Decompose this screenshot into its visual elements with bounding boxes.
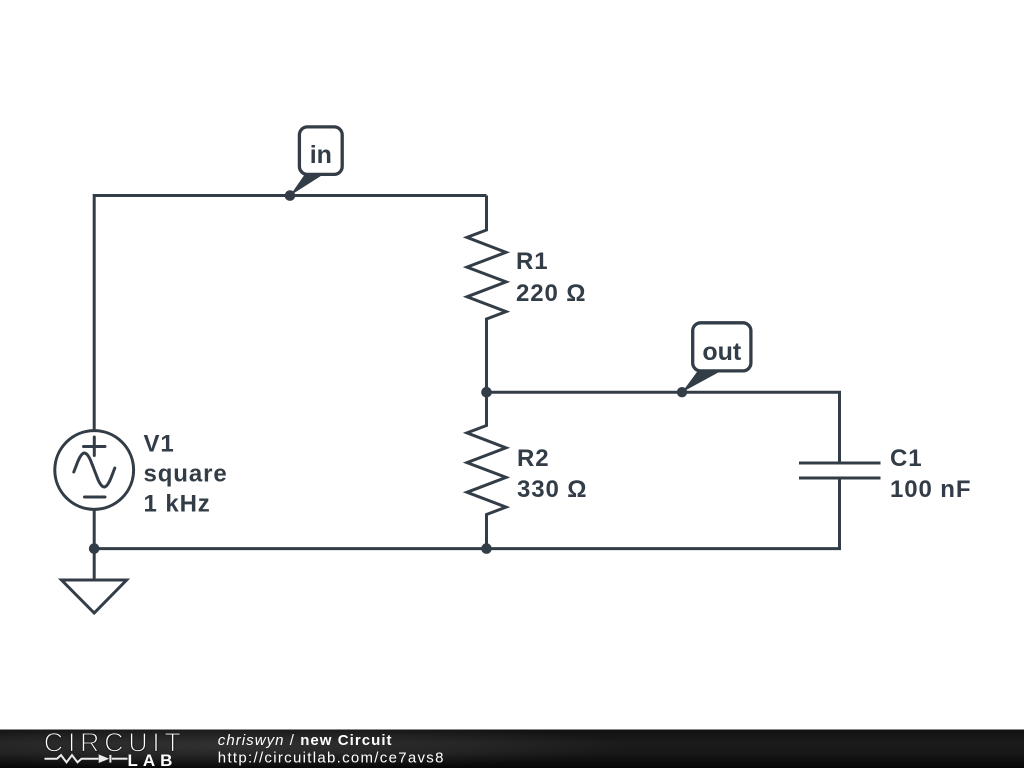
svg-text:330 Ω: 330 Ω [517,476,587,503]
svg-text:220 Ω: 220 Ω [516,280,586,307]
svg-text:R1: R1 [516,248,548,275]
svg-text:LAB: LAB [128,751,178,768]
svg-text:C1: C1 [890,445,922,472]
svg-text:square: square [144,460,228,487]
svg-text:R2: R2 [517,445,549,472]
svg-text:out: out [702,338,742,366]
svg-text:V1: V1 [144,430,175,457]
svg-text:100 nF: 100 nF [890,476,971,503]
svg-text:1 kHz: 1 kHz [144,490,211,517]
svg-text:http://circuitlab.com/ce7avs8: http://circuitlab.com/ce7avs8 [218,749,445,766]
svg-text:in: in [310,141,332,169]
svg-text:chriswyn / new Circuit: chriswyn / new Circuit [218,732,393,749]
